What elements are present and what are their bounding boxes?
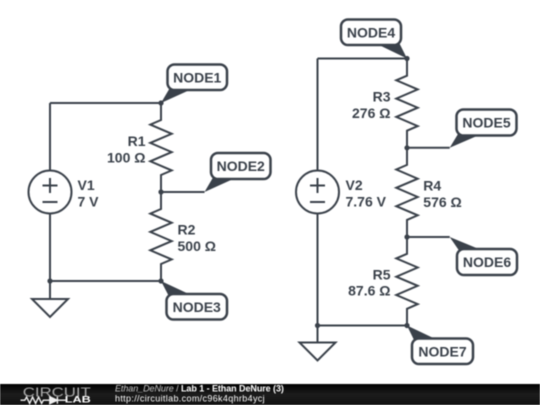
wire bottom rail right circuit bbox=[318, 325, 408, 327]
junction dot node 1 bbox=[158, 100, 163, 105]
svg-text:NODE3: NODE3 bbox=[173, 299, 221, 315]
wire bottom rail left circuit bbox=[50, 280, 161, 282]
wire NODE2 stub bbox=[161, 191, 205, 193]
svg-text:http://circuitlab.com/c96k4qhr: http://circuitlab.com/c96k4qhrb4ycj bbox=[115, 394, 265, 404]
wire top rail right circuit bbox=[318, 58, 408, 60]
junction dot node 5 bbox=[404, 145, 409, 150]
wire NODE6 stub bbox=[407, 236, 450, 238]
wire top rail left circuit bbox=[50, 102, 161, 104]
svg-text:100 Ω: 100 Ω bbox=[107, 149, 145, 165]
voltage source V2 bbox=[296, 171, 339, 214]
junction dot node 2 bbox=[158, 189, 163, 194]
node flag NODE6 bbox=[450, 237, 517, 275]
wire V1 top lead bbox=[49, 103, 51, 171]
svg-text:LAB: LAB bbox=[65, 394, 92, 404]
wire NODE5 stub bbox=[407, 147, 450, 149]
svg-text:R2: R2 bbox=[178, 222, 196, 238]
junction dot left ground bbox=[47, 278, 52, 283]
ground left bbox=[32, 281, 68, 317]
resistor R2 bbox=[150, 192, 171, 281]
footer bar bbox=[0, 384, 540, 405]
svg-text:NODE6: NODE6 bbox=[463, 254, 511, 270]
label R2 value bbox=[178, 222, 216, 254]
svg-text:7.76 V: 7.76 V bbox=[346, 193, 387, 209]
svg-text:R3: R3 bbox=[373, 89, 391, 105]
resistor R1 bbox=[150, 103, 171, 192]
node flag NODE2 bbox=[205, 153, 271, 192]
svg-text:V2: V2 bbox=[346, 177, 363, 193]
label V2 value bbox=[346, 177, 387, 209]
label R1 value bbox=[107, 133, 146, 165]
svg-text:Ethan_DeNure / Lab 1 - Ethan D: Ethan_DeNure / Lab 1 - Ethan DeNure (3) bbox=[115, 383, 284, 393]
node flag NODE1 bbox=[161, 65, 227, 104]
resistor R4 bbox=[396, 148, 417, 237]
svg-text:NODE1: NODE1 bbox=[173, 69, 221, 85]
svg-text:NODE4: NODE4 bbox=[347, 24, 395, 40]
wire V2 bottom lead bbox=[317, 214, 319, 326]
junction dot node 3 bbox=[158, 278, 163, 283]
label R3 value bbox=[352, 89, 391, 121]
svg-text:V1: V1 bbox=[78, 177, 95, 193]
svg-text:NODE7: NODE7 bbox=[418, 343, 466, 359]
svg-text:576 Ω: 576 Ω bbox=[423, 194, 461, 210]
svg-text:R4: R4 bbox=[423, 177, 441, 193]
junction dot right ground bbox=[315, 323, 320, 328]
svg-text:NODE2: NODE2 bbox=[217, 158, 265, 174]
wire V1 bottom lead bbox=[49, 214, 51, 282]
label R4 value bbox=[423, 177, 461, 209]
ground right bbox=[300, 326, 336, 361]
svg-text:R1: R1 bbox=[128, 133, 146, 149]
junction dot node 6 bbox=[404, 234, 409, 239]
svg-text:500 Ω: 500 Ω bbox=[178, 238, 216, 254]
svg-text:276 Ω: 276 Ω bbox=[352, 105, 390, 121]
svg-text:7 V: 7 V bbox=[78, 193, 100, 209]
resistor R5 bbox=[396, 237, 417, 326]
node flag NODE5 bbox=[450, 110, 517, 148]
node flag NODE7 bbox=[407, 326, 473, 365]
node flag NODE3 bbox=[161, 281, 227, 320]
junction dot node 4 bbox=[404, 56, 409, 61]
logo resistor-diode glyph bbox=[21, 397, 66, 404]
label R5 value bbox=[348, 266, 391, 298]
wire V2 top lead bbox=[317, 59, 319, 171]
svg-text:R5: R5 bbox=[373, 266, 391, 282]
junction dot node 7 bbox=[404, 323, 409, 328]
label V1 value bbox=[78, 177, 100, 209]
voltage source V1 bbox=[29, 171, 72, 214]
svg-text:NODE5: NODE5 bbox=[462, 115, 510, 131]
svg-text:87.6 Ω: 87.6 Ω bbox=[348, 283, 390, 299]
resistor R3 bbox=[396, 59, 417, 148]
node flag NODE4 bbox=[341, 20, 407, 59]
